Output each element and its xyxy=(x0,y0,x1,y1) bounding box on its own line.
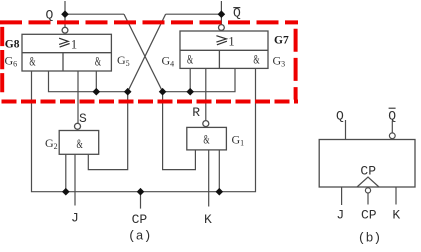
bubble G8 output xyxy=(62,27,68,33)
b dynamic edge triangle CP xyxy=(357,177,379,187)
wire b Q output xyxy=(345,120,347,140)
wire Qbar-net down to G2 feedback input xyxy=(88,92,127,170)
wire Q horizontal to crossover xyxy=(65,13,124,15)
wire b Qbar output xyxy=(391,121,393,133)
op-amp G7 composite AOI gate outer box xyxy=(180,31,268,68)
wire b K input xyxy=(395,187,397,205)
svg-text:G5: G5 xyxy=(117,53,130,68)
svg-text:R: R xyxy=(192,105,200,120)
junction Qbar node xyxy=(218,10,226,18)
junction CP on bus xyxy=(137,188,145,196)
svg-text:G7: G7 xyxy=(274,35,289,47)
svg-text:&: & xyxy=(187,51,193,66)
wire J input to G2 xyxy=(74,154,76,205)
svg-text:G3: G3 xyxy=(273,54,286,69)
flip-flop U1 part (b) box xyxy=(319,140,415,188)
svg-text:&: & xyxy=(95,54,101,69)
bubble R G1 output xyxy=(203,121,209,127)
svg-text:J: J xyxy=(336,207,344,222)
wire G8 right cell inner input xyxy=(95,71,97,92)
junction G1 clock on CP bus xyxy=(216,188,224,196)
svg-text:G4: G4 xyxy=(162,53,175,68)
svg-text:(a): (a) xyxy=(128,229,151,244)
bubble S G2 output xyxy=(75,123,81,129)
junction G8 inner input on Qbar net xyxy=(93,88,101,96)
gate G1 box xyxy=(187,127,227,149)
svg-text:(b): (b) xyxy=(358,231,381,246)
bubble G7 output xyxy=(219,25,225,31)
wire G1 clock input to bus xyxy=(218,150,220,192)
svg-text:J: J xyxy=(71,211,79,226)
junction Qbar net to G2 feedback xyxy=(124,88,132,96)
wire Q output vertical xyxy=(64,1,66,28)
svg-text:&: & xyxy=(203,132,209,147)
svg-text:CP: CP xyxy=(360,163,376,178)
wire b CP input xyxy=(367,193,369,204)
wire Q-net down to G1 feedback input xyxy=(163,92,196,170)
wire S from G2 output to G8 input xyxy=(77,71,79,123)
wire Qbar-net bus horizontal xyxy=(49,71,128,92)
svg-text:S: S xyxy=(79,111,87,126)
svg-text:1: 1 xyxy=(71,37,77,51)
svg-text:K: K xyxy=(392,207,400,222)
red dashed highlight box xyxy=(0,22,298,101)
junction G2 clock on CP bus xyxy=(62,188,70,196)
wire CP input stub xyxy=(140,192,142,209)
G7 cell divider xyxy=(218,50,220,68)
junction Q node xyxy=(61,10,69,18)
bubble b CP xyxy=(365,188,370,193)
wire R from G1 output to G7 input xyxy=(205,68,207,120)
wire Qbar horizontal to crossover xyxy=(166,13,222,15)
G7 row divider xyxy=(180,49,268,51)
svg-text:CP: CP xyxy=(361,207,377,222)
svg-text:Q: Q xyxy=(336,108,344,123)
junction Q net to G1 feedback xyxy=(159,88,167,96)
svg-text:1: 1 xyxy=(228,34,234,48)
wire G2 clock input to bus xyxy=(65,154,67,191)
gate G7 OR-row symbol xyxy=(216,36,227,45)
wire G7 left cell inner input xyxy=(189,68,191,91)
svg-text:CP: CP xyxy=(132,212,148,227)
junction G7 inner input on Q net xyxy=(186,88,194,96)
gate G8 OR-row symbol xyxy=(59,38,70,47)
svg-text:&: & xyxy=(253,51,259,66)
wire G8 input from g6 cell to bottom bus xyxy=(32,68,256,191)
svg-text:G6: G6 xyxy=(5,54,18,69)
svg-text:K: K xyxy=(204,212,212,227)
svg-text:G1: G1 xyxy=(232,133,245,148)
svg-text:G2: G2 xyxy=(45,136,58,151)
G8 row divider xyxy=(22,52,111,54)
svg-text:&: & xyxy=(29,54,35,69)
svg-text:Q: Q xyxy=(388,108,396,123)
wire crossover diagonal Qbar to node QB1 xyxy=(128,14,166,92)
op-amp G8 composite AOI gate outer box xyxy=(22,34,111,71)
G8 cell divider xyxy=(62,53,64,71)
svg-text:Q: Q xyxy=(46,7,54,22)
wire crossover diagonal Q to node QN1 xyxy=(124,14,163,92)
svg-text:&: & xyxy=(77,136,83,151)
wire Q-net bus horizontal xyxy=(163,68,235,91)
bubble b Qbar xyxy=(389,133,395,139)
wire Qbar output vertical xyxy=(220,1,222,25)
svg-text:G8: G8 xyxy=(5,39,20,51)
wire b J input xyxy=(341,187,343,205)
wire K input to G1 xyxy=(208,150,210,207)
gate G2 box xyxy=(59,131,98,155)
